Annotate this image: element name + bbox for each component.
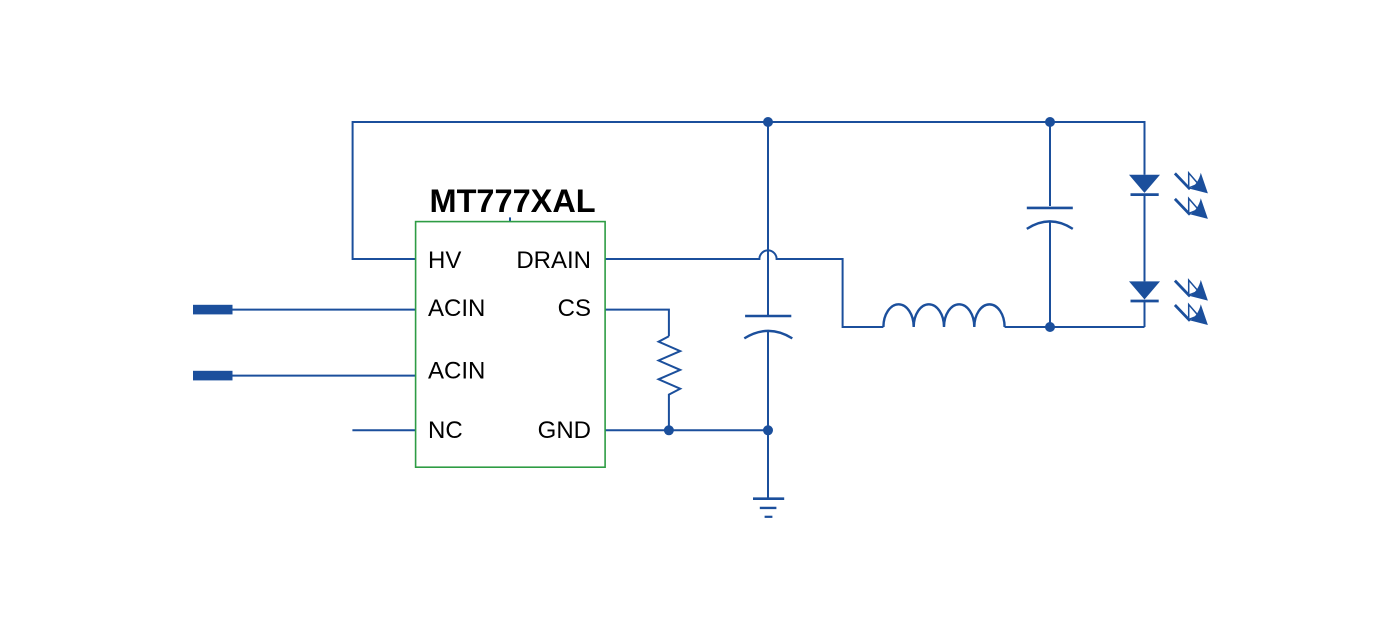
svg-text:HV: HV xyxy=(428,247,461,274)
op-amp U1 box xyxy=(416,222,605,468)
node top junction at C1 branch xyxy=(763,117,773,127)
wire GND lead xyxy=(605,429,768,431)
capacitor C2 bottom lead xyxy=(1049,223,1051,328)
LED D1 xyxy=(1129,175,1160,193)
ground bar 1 xyxy=(753,497,784,500)
node top junction at C2 branch xyxy=(1045,117,1055,127)
wire top rail xyxy=(353,121,1145,123)
wire ACIN2 lead xyxy=(233,375,416,377)
capacitor C2 top lead xyxy=(1049,121,1051,206)
svg-text:CS: CS xyxy=(558,295,591,322)
terminal J1 xyxy=(193,305,233,315)
wire LED bottom lead xyxy=(1144,301,1146,327)
LED D2 ray 2 xyxy=(1175,304,1208,325)
capacitor C1 flat plate xyxy=(745,315,791,318)
inductor L1 xyxy=(883,304,1004,327)
svg-text:ACIN: ACIN xyxy=(428,295,485,322)
svg-text:NC: NC xyxy=(428,417,463,444)
LED D2 cathode bar xyxy=(1131,300,1159,303)
node junction R1/GND xyxy=(664,425,674,435)
wire DRAIN with hop over C1 branch xyxy=(605,250,883,327)
wire left drop to HV xyxy=(353,121,416,259)
wire inductor to LED string bottom xyxy=(1005,326,1145,328)
svg-text:GND: GND xyxy=(538,417,591,444)
node junction GND/C1 xyxy=(763,425,773,435)
IC top stub xyxy=(509,217,511,221)
LED D2 xyxy=(1129,281,1160,299)
terminal J2 xyxy=(193,371,233,381)
ground bar 2 xyxy=(760,507,777,509)
wire NC lead xyxy=(352,429,415,431)
capacitor C1 curved plate xyxy=(744,331,792,339)
wire between LEDs xyxy=(1144,195,1146,282)
LED D1 ray 1 xyxy=(1175,173,1208,194)
resistor R1 xyxy=(659,336,681,430)
svg-text:ACIN: ACIN xyxy=(428,358,485,385)
svg-text:DRAIN: DRAIN xyxy=(516,247,591,274)
node bottom junction at C2 branch xyxy=(1045,322,1055,332)
capacitor C1 bottom lead xyxy=(767,332,769,498)
wire ACIN1 lead xyxy=(233,309,416,311)
wire CS lead xyxy=(605,310,669,337)
capacitor C2 curved plate xyxy=(1027,221,1073,229)
capacitor C2 flat plate xyxy=(1027,207,1073,210)
LED D2 ray 1 xyxy=(1175,280,1208,301)
LED D1 cathode bar xyxy=(1131,193,1159,196)
svg-text:MT777XAL: MT777XAL xyxy=(430,183,596,219)
capacitor C1 top lead xyxy=(767,122,769,315)
LED D1 ray 2 xyxy=(1175,198,1208,219)
ground bar 3 xyxy=(765,516,773,518)
wire LED branch top lead xyxy=(1144,121,1146,175)
